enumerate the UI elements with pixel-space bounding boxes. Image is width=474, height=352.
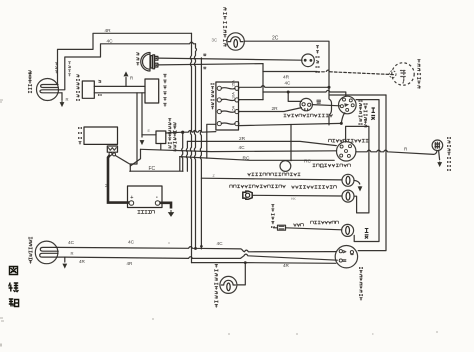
- wire fuse3 output 2R to flasher relay: [239, 108, 302, 112]
- wire bus A 4C: [58, 247, 336, 252]
- junction dot bus C flasher vertical: [244, 261, 247, 264]
- regulator box: [145, 79, 159, 103]
- wire fuse2 output to x263: [239, 99, 263, 101]
- svg-text:2C: 2C: [272, 35, 279, 41]
- wire line to neutral pilot lamp: [201, 178, 342, 180]
- wire horn lead 1: [158, 58, 302, 60]
- high beam pilot lamp: [342, 190, 354, 202]
- wire headlamp R line A: [58, 33, 192, 84]
- wire FC line: [130, 170, 183, 172]
- rectifier box: [82, 81, 94, 98]
- flasher lamp R label: [223, 7, 226, 46]
- service check label: [448, 137, 451, 171]
- wire main switch to right loop: [354, 100, 379, 242]
- svg-text:15A: 15A: [232, 80, 236, 87]
- fuse 2: [217, 98, 221, 102]
- ground arrow charge unit: [140, 140, 143, 144]
- svg-text:4R: 4R: [283, 75, 290, 81]
- wire y92 to main switch: [263, 90, 346, 96]
- text row cylinder head earth: [248, 173, 301, 176]
- wire service check line: [356, 150, 437, 154]
- bold label near pilot lamp 3: [365, 229, 369, 239]
- neutral pilot lamp name: [321, 166, 324, 168]
- legend wiring diagram kanji: [10, 267, 18, 275]
- wire lighting box loop to high beam lamp: [346, 126, 369, 212]
- condenser label: [271, 205, 274, 228]
- wire condenser to pilot lamp 3: [286, 228, 342, 230]
- pilot lamp 3: [342, 224, 354, 236]
- meter lamp dashed: [392, 63, 414, 85]
- contact breaker label: [313, 164, 351, 167]
- scan noise specks: [0, 100, 438, 334]
- wire pilot unit left lead: [142, 134, 156, 136]
- junction dot node pilot wire: [181, 131, 184, 134]
- svg-text:4C: 4C: [128, 240, 135, 246]
- svg-text:-: -: [156, 194, 158, 201]
- svg-text:R: R: [66, 97, 69, 102]
- spark plug symbol: [243, 191, 252, 199]
- wire 4R line to meter lamp: [263, 71, 317, 73]
- wire flasher L vertical: [237, 263, 245, 285]
- fuse box: [216, 82, 239, 130]
- flasher lamp L filament: [221, 280, 235, 285]
- junction dot bus A x195: [194, 247, 197, 250]
- svg-text:5A: 5A: [232, 105, 236, 110]
- wire horn lead 2: [158, 64, 263, 65]
- rectifier label: [77, 75, 80, 101]
- meter lamp label: [417, 60, 420, 89]
- headlamp L label: [29, 237, 32, 264]
- wire 2C loop right vertical: [358, 95, 386, 251]
- labels on condenser line: [294, 224, 304, 227]
- wire battery negative to ground thick: [160, 203, 171, 209]
- headlamp L: [35, 241, 58, 264]
- svg-text:R: R: [71, 251, 74, 256]
- svg-text:RC: RC: [304, 158, 311, 164]
- flasher lamp L: [220, 276, 237, 293]
- condenser symbol: [274, 225, 286, 230]
- lighting switch: [337, 142, 356, 161]
- svg-text:4R: 4R: [79, 259, 86, 264]
- headlamp R: [37, 79, 59, 101]
- wire pilot unit right with hops to fuse box: [166, 131, 216, 134]
- wire 4C line left end to FC corner: [130, 149, 140, 166]
- svg-text:4R: 4R: [283, 263, 290, 268]
- dimmer switch: [335, 246, 357, 268]
- junction dot main switch bottom: [340, 122, 343, 125]
- svg-text:4R: 4R: [105, 28, 112, 34]
- junction dot x201 bottom: [200, 245, 203, 248]
- battery label: [138, 211, 155, 214]
- wire relay drop: [288, 92, 301, 101]
- svg-text:FC: FC: [149, 166, 156, 172]
- svg-text:4R: 4R: [127, 261, 134, 266]
- text row neutral switch labels: [230, 185, 286, 188]
- wire RC line left corner to FC: [179, 157, 181, 171]
- wire battery positive thick: [108, 155, 129, 202]
- horn label: [136, 53, 139, 66]
- headlamp R filament hairpin high: [41, 85, 58, 88]
- regulator label: [163, 74, 166, 106]
- wire 4C line to lighting switch: [141, 149, 337, 151]
- wire RC line contact breaker: [180, 157, 334, 161]
- contact breaker: [280, 161, 291, 172]
- wire relay to main switch: [312, 105, 340, 106]
- wire rectifier to regulator lower: [94, 92, 145, 94]
- main switch bold label: [371, 108, 375, 120]
- svg-text:R: R: [130, 76, 133, 81]
- wire regulator down to FC corner: [130, 93, 137, 164]
- flasher lamp R: [227, 33, 244, 50]
- svg-text:3C: 3C: [212, 38, 218, 43]
- ground arrow headlamp R: [61, 93, 63, 100]
- wire spark line to high beam pilot lamp: [252, 194, 342, 197]
- wire 2R line to lighting switch: [187, 141, 336, 145]
- wire starter diagonal to FC: [115, 155, 130, 171]
- svg-text:4C: 4C: [217, 241, 224, 247]
- ground arrow neutral lamp: [354, 180, 360, 184]
- wire vertical x182 down to FC line: [182, 132, 183, 171]
- wire vertical x206 fuse feed: [207, 124, 216, 158]
- headlamp L filament hairpin low: [40, 253, 65, 257]
- wire regulator down to ground: [141, 93, 143, 137]
- flasher relay label: [284, 114, 333, 117]
- junction dot horn lead 1 vertical: [200, 58, 201, 249]
- charge pilot unit box: [156, 131, 166, 144]
- svg-text:2R: 2R: [272, 106, 279, 112]
- svg-text:+: +: [130, 195, 133, 201]
- wire headlamp R line B: [58, 42, 196, 90]
- fuse 3: [217, 110, 221, 114]
- battery box: [128, 186, 163, 208]
- wire fuse1 output 4C: [239, 86, 329, 88]
- horn switch label: [316, 46, 319, 74]
- svg-text:4C: 4C: [107, 39, 114, 45]
- horn: [141, 53, 150, 72]
- dimmer switch label: [360, 267, 363, 301]
- wire bus C: [192, 262, 336, 265]
- battery terminals: [129, 201, 134, 206]
- main switch: [339, 96, 357, 114]
- flasher lamp R filament: [228, 37, 243, 42]
- headlamp R filament hairpin low: [40, 90, 62, 93]
- wire pilot unit bottom to 4C line: [160, 144, 162, 150]
- flasher lamp L label: [215, 264, 218, 307]
- wire vertical x291 to RC: [290, 125, 292, 161]
- junction dot y92 relay drop: [287, 91, 290, 94]
- wire fuse4 output to main switch bottom: [239, 123, 341, 125]
- fuse 1: [217, 86, 221, 90]
- ground arrow battery: [169, 210, 174, 216]
- svg-text:RC: RC: [243, 156, 250, 162]
- svg-text:10A: 10A: [232, 92, 236, 99]
- svg-text:4C: 4C: [68, 240, 75, 246]
- headlamp L filament hairpin high: [40, 247, 58, 251]
- fuse 4: [217, 122, 221, 126]
- ground arrow up near regulator: [125, 78, 127, 87]
- fuse box label: [211, 83, 214, 109]
- main switch labels: [359, 100, 362, 125]
- service check plug: [432, 140, 443, 151]
- svg-text:4C: 4C: [285, 81, 292, 86]
- svg-text:4C: 4C: [239, 145, 246, 151]
- wire fuse2 feed corner x263: [262, 64, 264, 100]
- wire bus B: [65, 254, 338, 260]
- starter brush connector: [107, 146, 117, 152]
- lighting switch label: [329, 139, 369, 142]
- horn switch: [302, 54, 315, 67]
- wire 2C flasher R to loop: [244, 41, 386, 125]
- wire main vertical x191: [190, 33, 191, 262]
- svg-text:HK: HK: [291, 197, 296, 201]
- wire vertical x187: [186, 141, 187, 171]
- neutral pilot lamp: [342, 174, 354, 186]
- svg-text:2R: 2R: [239, 136, 246, 142]
- charge pilot unit labels: [168, 119, 171, 149]
- wire main vertical x195: [194, 44, 196, 249]
- wire labels rectifier leads: [98, 80, 101, 83]
- ground arrow service plug: [439, 151, 440, 160]
- starter motor box: [84, 127, 118, 144]
- ground arrow headlamp L: [64, 257, 66, 262]
- wire stem to main switch: [341, 113, 345, 124]
- flasher relay: [300, 98, 312, 110]
- starter label: [79, 127, 82, 145]
- headlamp R label: [28, 70, 31, 93]
- wire rectifier to regulator upper: [94, 85, 145, 87]
- junction dot fuse1 line at 2C vertical: [328, 86, 331, 89]
